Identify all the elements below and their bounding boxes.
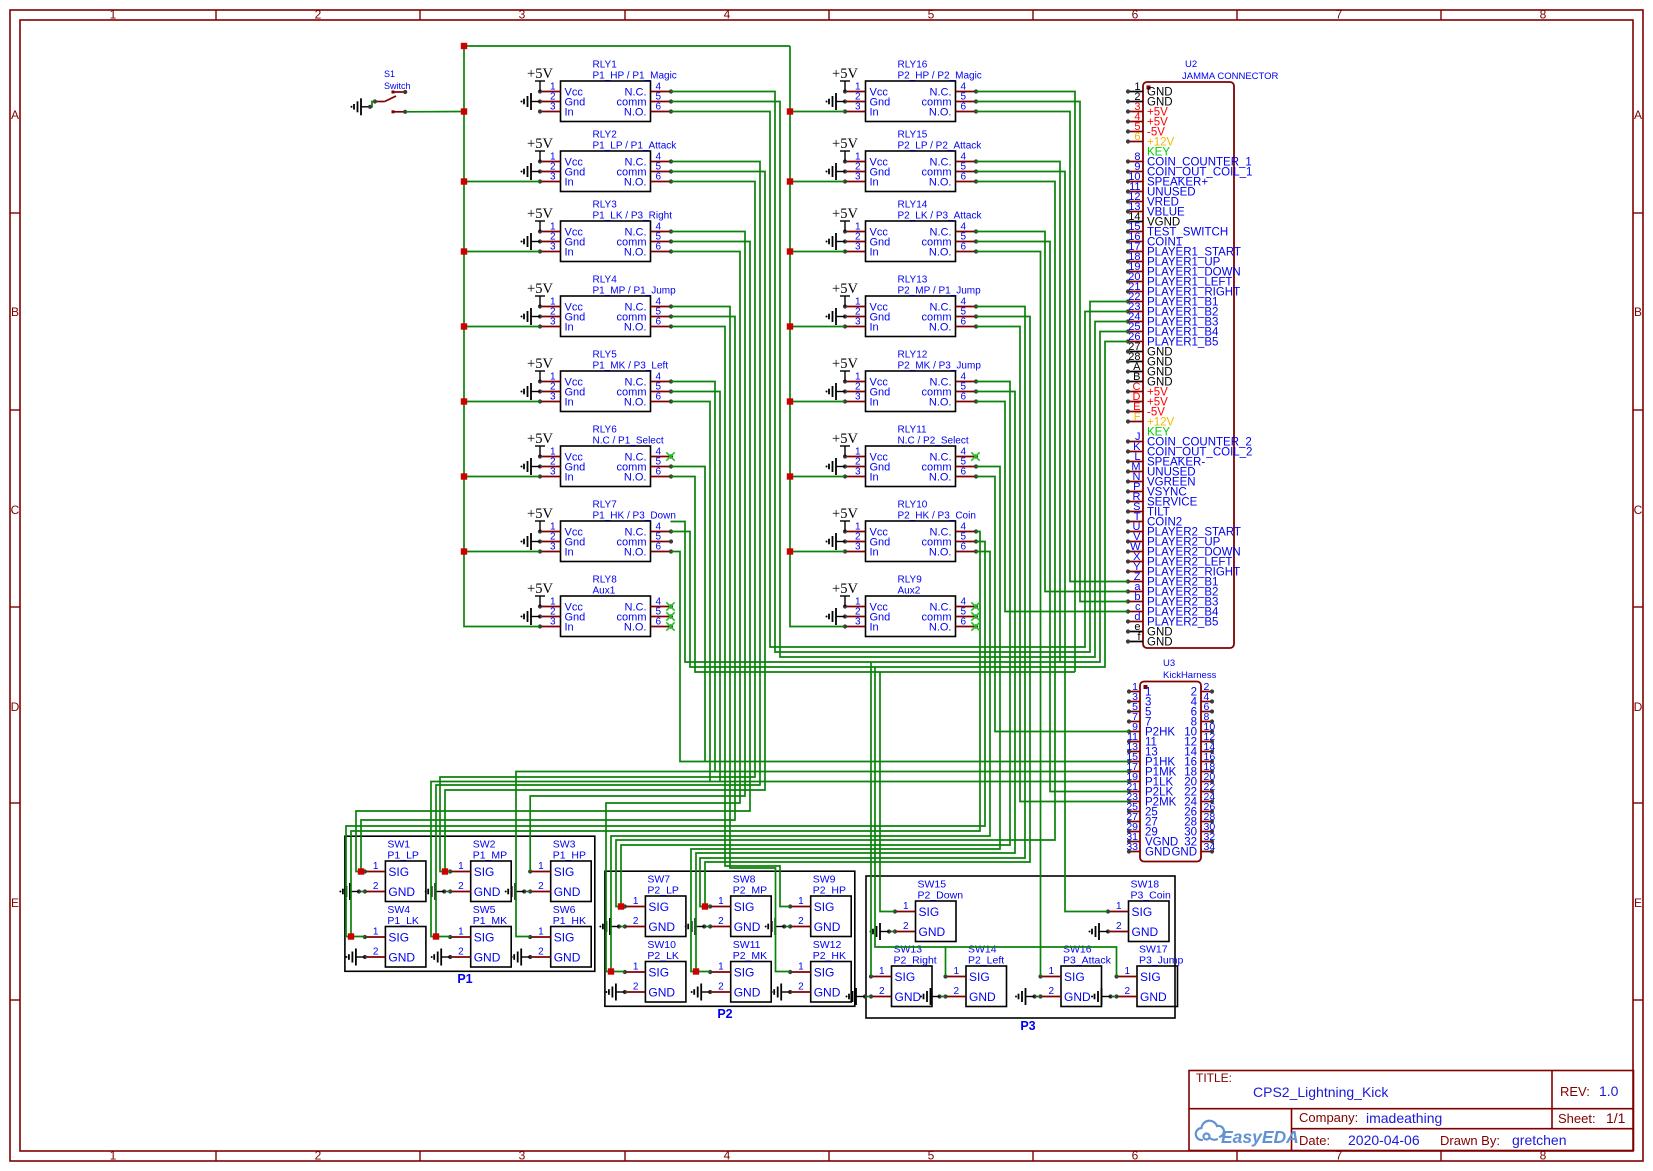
no-connect flag (666, 622, 674, 630)
svg-text:Switch: Switch (384, 81, 411, 91)
svg-text:P2_LP: P2_LP (647, 885, 679, 897)
switch SW6 P1_HK (528, 904, 591, 967)
svg-text:1: 1 (1048, 966, 1054, 977)
svg-text:In: In (565, 472, 574, 484)
junction (693, 968, 699, 974)
wire RLY15 NC drop (976, 162, 1061, 663)
svg-text:In: In (565, 547, 574, 559)
svg-text:1: 1 (879, 966, 885, 977)
svg-text:TITLE:: TITLE: (1196, 1071, 1232, 1085)
svg-text:1: 1 (718, 896, 724, 907)
group box P3 (866, 876, 1175, 1018)
ground at SW10 (605, 984, 625, 1001)
svg-text:P1_MK: P1_MK (473, 915, 507, 927)
wire right In rail (790, 46, 845, 627)
svg-text:6: 6 (656, 242, 662, 253)
svg-text:2020-04-06: 2020-04-06 (1348, 1132, 1420, 1148)
svg-text:6: 6 (656, 317, 662, 328)
svg-text:N.O.: N.O. (929, 247, 952, 259)
ground at RLY6 pin 2 (521, 458, 541, 475)
svg-text:+5V: +5V (527, 206, 553, 222)
svg-text:RLY16: RLY16 (898, 60, 928, 71)
svg-text:SIG: SIG (388, 865, 409, 879)
svg-text:N.O.: N.O. (929, 622, 952, 634)
switch SW4 P1_LK (363, 904, 426, 967)
svg-text:3: 3 (550, 317, 556, 328)
no-connect flag (971, 602, 979, 610)
svg-text:GND: GND (554, 885, 581, 899)
switch S1 (373, 69, 411, 114)
ground at SW7 (619, 926, 625, 928)
svg-text:+5V: +5V (527, 136, 553, 152)
wire RLY14 NO to SW16 (976, 252, 1041, 977)
svg-text:3: 3 (550, 242, 556, 253)
svg-text:SIG: SIG (919, 905, 940, 919)
wire KickHarness P1MK to SW6 (516, 772, 1129, 937)
svg-text:6: 6 (656, 392, 662, 403)
svg-text:P1_MK / P3_Left: P1_MK / P3_Left (593, 361, 669, 372)
svg-text:P1_HK / P3_Down: P1_HK / P3_Down (593, 511, 676, 522)
svg-text:JAMMA CONNECTOR: JAMMA CONNECTOR (1182, 71, 1279, 82)
svg-text:RLY1: RLY1 (593, 60, 618, 71)
wire RLY In stub left y401.5 (464, 401, 540, 403)
ground at SW15 (889, 931, 895, 933)
svg-text:P3_Attack: P3_Attack (1063, 955, 1112, 967)
junction (358, 868, 364, 874)
svg-text:2: 2 (538, 881, 544, 892)
wire RLY In stub left y551.5 (464, 551, 540, 553)
relay RLY15 P2_LP / P2_Attack (843, 130, 982, 192)
ground at SW13 (865, 996, 871, 998)
ground at SW8 (704, 926, 710, 928)
svg-text:In: In (565, 622, 574, 634)
svg-text:+5V: +5V (832, 206, 858, 222)
junction (787, 323, 793, 329)
svg-text:SIG: SIG (554, 865, 575, 879)
svg-text:GND: GND (648, 920, 675, 934)
ground at SW18 (1089, 923, 1109, 940)
svg-text:+5V: +5V (832, 431, 858, 447)
svg-text:3: 3 (855, 542, 861, 553)
relay RLY14 P2_LK / P3_Attack (843, 200, 983, 262)
svg-text:33: 33 (1126, 841, 1138, 853)
svg-text:RLY10: RLY10 (898, 500, 928, 511)
svg-text:GND: GND (648, 986, 675, 1000)
svg-text:SIG: SIG (474, 931, 495, 945)
svg-text:In: In (565, 177, 574, 189)
switch SW16 P3_Attack (1038, 944, 1111, 1007)
svg-text:34: 34 (1204, 841, 1216, 853)
junction (348, 933, 354, 939)
svg-text:SIG: SIG (1140, 970, 1161, 984)
svg-text:3: 3 (519, 1149, 526, 1163)
svg-text:3: 3 (550, 542, 556, 553)
svg-text:2: 2 (458, 947, 464, 958)
svg-text:3: 3 (550, 467, 556, 478)
junction (461, 398, 467, 404)
svg-text:N.O.: N.O. (624, 322, 647, 334)
wire RLY5 comm to P1LK net (671, 392, 721, 782)
svg-text:SIG: SIG (648, 900, 669, 914)
svg-text:SIG: SIG (895, 970, 916, 984)
svg-text:GND: GND (1171, 847, 1197, 859)
svg-text:B: B (11, 305, 19, 319)
svg-text:P2_Left: P2_Left (968, 955, 1004, 967)
svg-text:CPS2_Lightning_Kick: CPS2_Lightning_Kick (1253, 1084, 1389, 1100)
svg-text:3: 3 (855, 617, 861, 628)
svg-text:2: 2 (903, 921, 909, 932)
svg-text:6: 6 (656, 102, 662, 113)
wire RLY In stub right y326.5 (790, 326, 845, 328)
wire RLY3 NO to SW10 net (606, 252, 740, 972)
wire RLY7 NO to KickHarness P1HK (671, 552, 1130, 762)
wire S1 common to ground (370, 102, 375, 107)
ground at RLY2 pin 2 (521, 163, 541, 180)
ground at SW16 (1035, 996, 1041, 998)
svg-text:GND: GND (1064, 990, 1091, 1004)
relay RLY16 P2_HP / P2_Magic (843, 60, 982, 122)
wire RLY13 comm to SW8 (705, 317, 1030, 907)
junction (787, 178, 793, 184)
junction (442, 868, 448, 874)
svg-text:N.C / P2_Select: N.C / P2_Select (898, 436, 969, 447)
no-connect flag (971, 622, 979, 630)
svg-text:3: 3 (855, 172, 861, 183)
svg-text:1: 1 (633, 962, 639, 973)
svg-text:RLY13: RLY13 (898, 275, 928, 286)
relay RLY5 P1_MK / P3_Left (538, 350, 673, 412)
svg-text:N.O.: N.O. (929, 107, 952, 119)
svg-text:1: 1 (903, 901, 909, 912)
svg-text:3: 3 (519, 8, 526, 22)
svg-text:C: C (1634, 503, 1643, 517)
wire RLY5 NC to P1MK net (671, 382, 716, 772)
relay RLY3 P1_LK / P3_Right (538, 200, 673, 262)
wire RLY In stub right y476.5 (790, 476, 845, 478)
relay RLY1 P1_HP / P1_Magic (538, 60, 677, 122)
svg-text:3: 3 (855, 467, 861, 478)
svg-text:Aux1: Aux1 (593, 586, 616, 597)
wire RLY16 comm to JAMMA P2_B3 (976, 102, 1129, 602)
wire RLY14 comm to KickHarness P2LK (976, 242, 1130, 792)
svg-text:6: 6 (961, 392, 967, 403)
svg-text:+5V: +5V (527, 356, 553, 372)
svg-text:P1_LP: P1_LP (387, 850, 419, 862)
svg-text:N.O.: N.O. (624, 622, 647, 634)
relay RLY4 P1_MP / P1_Jump (538, 275, 676, 337)
svg-text:GND: GND (1132, 925, 1159, 939)
ground at SW6 (511, 949, 531, 966)
relay RLY8 Aux1 (538, 575, 673, 637)
svg-text:5: 5 (928, 1149, 935, 1163)
svg-text:2: 2 (315, 1149, 322, 1163)
ground at SW1 (359, 891, 365, 893)
svg-text:U3: U3 (1163, 658, 1175, 669)
svg-text:A: A (1634, 108, 1642, 122)
ground at RLY4 pin 2 (521, 308, 541, 325)
svg-text:P2_LP / P2_Attack: P2_LP / P2_Attack (898, 141, 983, 152)
wire RLY In stub left y251.5 (464, 251, 540, 253)
wire RLY7 NC to JAMMA P1_B4 row (671, 332, 1129, 663)
svg-text:In: In (870, 247, 879, 259)
svg-text:1: 1 (633, 896, 639, 907)
svg-text:3: 3 (855, 392, 861, 403)
relay RLY13 P2_MP / P1_Jump (843, 275, 981, 337)
switch SW5 P1_MK (448, 904, 511, 967)
svg-text:EasyEDA: EasyEDA (1221, 1127, 1299, 1147)
svg-text:2: 2 (798, 916, 804, 927)
svg-text:GND: GND (814, 986, 841, 1000)
switch SW10 P2_LK (623, 939, 686, 1002)
svg-text:Company:: Company: (1299, 1110, 1358, 1125)
svg-text:6: 6 (1132, 8, 1139, 22)
ground at RLY7 pin 2 (521, 533, 541, 550)
svg-text:KickHarness: KickHarness (1163, 670, 1217, 681)
junction (461, 108, 467, 114)
svg-text:F: F (1134, 411, 1141, 423)
svg-text:RLY11: RLY11 (898, 425, 928, 436)
svg-text:P2_HK / P3_Coin: P2_HK / P3_Coin (898, 511, 976, 522)
svg-text:SIG: SIG (388, 931, 409, 945)
relay RLY9 Aux2 (843, 575, 978, 637)
svg-text:SIG: SIG (1132, 905, 1153, 919)
svg-text:C: C (11, 503, 20, 517)
wire RLY3 NC to SW3 (530, 232, 745, 872)
group box P2 (605, 871, 855, 1006)
svg-text:6: 6 (961, 172, 967, 183)
no-connect flag (666, 602, 674, 610)
svg-text:7: 7 (1336, 8, 1343, 22)
svg-text:In: In (565, 322, 574, 334)
relay RLY12 P2_MK / P3_Jump (843, 350, 981, 412)
svg-text:1: 1 (538, 861, 544, 872)
relay RLY11 N.C / P2_Select (843, 425, 978, 487)
svg-text:GND: GND (814, 920, 841, 934)
svg-text:+5V: +5V (527, 581, 553, 597)
ground at SW5 (431, 949, 451, 966)
svg-text:imadeathing: imadeathing (1366, 1110, 1442, 1126)
svg-text:1: 1 (1124, 966, 1130, 977)
svg-text:In: In (870, 322, 879, 334)
svg-text:In: In (870, 397, 879, 409)
ground at SW17 (1111, 996, 1117, 998)
svg-text:SIG: SIG (734, 966, 755, 980)
svg-text:2: 2 (373, 947, 379, 958)
wire S1 to left In rail (405, 111, 464, 113)
svg-text:1: 1 (458, 861, 464, 872)
svg-text:SIG: SIG (648, 966, 669, 980)
no-connect flag (666, 452, 674, 460)
junction (461, 548, 467, 554)
junction (787, 398, 793, 404)
wire RLY15 NO to SW7 net (616, 182, 1055, 907)
ground at SW3 (524, 891, 530, 893)
svg-text:In: In (870, 547, 879, 559)
svg-text:In: In (870, 107, 879, 119)
svg-text:2: 2 (633, 982, 639, 993)
connector U2 JAMMA CONNECTOR (1126, 59, 1279, 649)
svg-text:4: 4 (724, 8, 731, 22)
ground at SW9 (784, 926, 790, 928)
svg-text:REV:: REV: (1560, 1084, 1590, 1099)
svg-text:RLY7: RLY7 (593, 500, 618, 511)
wire RLY12 comm to SW11 (696, 392, 1015, 972)
junction (461, 323, 467, 329)
svg-text:RLY5: RLY5 (593, 350, 618, 361)
svg-text:+5V: +5V (832, 356, 858, 372)
wire RLY16 NC drop (976, 92, 1076, 673)
wire RLY In stub right y251.5 (790, 251, 845, 253)
svg-text:2: 2 (373, 881, 379, 892)
svg-text:+5V: +5V (832, 506, 858, 522)
wire RLY1 comm to JAMMA P1_B3 (671, 102, 1129, 658)
wire RLY15 comm to SW18 (976, 172, 1109, 912)
svg-text:2: 2 (953, 986, 959, 997)
ground at SW2 (444, 891, 450, 893)
switch SW13 P2_Right (869, 944, 937, 1007)
svg-text:1: 1 (798, 896, 804, 907)
svg-text:2: 2 (1124, 986, 1130, 997)
wire RLY4 comm to SW1 (361, 317, 735, 872)
svg-text:6: 6 (961, 542, 967, 553)
wire RLY13 NO to KickHarness P2MK (976, 327, 1130, 802)
svg-text:1.0: 1.0 (1599, 1083, 1619, 1099)
svg-text:GND: GND (1145, 847, 1171, 859)
svg-text:6: 6 (961, 467, 967, 478)
wire RLY In stub left y326.5 (464, 326, 540, 328)
svg-text:D: D (11, 700, 20, 714)
svg-text:N.O.: N.O. (624, 177, 647, 189)
svg-text:SIG: SIG (1064, 970, 1085, 984)
wire RLY12 NO to JAMMA P2_B4 (976, 402, 1129, 612)
svg-text:P1: P1 (457, 972, 472, 986)
wire RLY In stub right y401.5 (790, 401, 845, 403)
wire RLY12 NC to SW7 (621, 382, 1010, 907)
svg-text:2: 2 (315, 8, 322, 22)
svg-text:N.O.: N.O. (929, 322, 952, 334)
wire RLY13 NC to SW8 net (700, 307, 1025, 907)
svg-text:RLY2: RLY2 (593, 130, 618, 141)
svg-text:+5V: +5V (832, 581, 858, 597)
svg-text:1: 1 (373, 861, 379, 872)
no-connect flag (666, 612, 674, 620)
svg-text:4: 4 (724, 1149, 731, 1163)
svg-text:N.O.: N.O. (624, 247, 647, 259)
junction (787, 108, 793, 114)
svg-text:P2_Down: P2_Down (918, 890, 964, 902)
wire RLY5 NO to P1LK net (671, 402, 711, 782)
svg-text:1: 1 (373, 927, 379, 938)
svg-text:2: 2 (538, 947, 544, 958)
junction (433, 933, 439, 939)
ground at SW11 (691, 984, 711, 1001)
svg-text:N.O.: N.O. (624, 472, 647, 484)
svg-text:3: 3 (855, 317, 861, 328)
svg-text:6: 6 (961, 102, 967, 113)
svg-text:6: 6 (656, 542, 662, 553)
svg-text:2: 2 (798, 982, 804, 993)
svg-text:RLY14: RLY14 (898, 200, 928, 211)
svg-text:2: 2 (1048, 986, 1054, 997)
svg-text:P1_MP: P1_MP (473, 850, 507, 862)
svg-text:A: A (11, 108, 19, 122)
wire RLY11 comm to SW11 net (691, 467, 1000, 972)
svg-text:+5V: +5V (527, 281, 553, 297)
title block (1189, 1071, 1634, 1151)
svg-text:P2: P2 (717, 1007, 732, 1021)
svg-text:P3_Coin: P3_Coin (1131, 890, 1171, 902)
svg-text:GND: GND (388, 951, 415, 965)
ground at RLY12 pin 2 (826, 383, 846, 400)
svg-text:P2_Right: P2_Right (894, 955, 937, 967)
junction (787, 248, 793, 254)
svg-text:P1_HP / P1_Magic: P1_HP / P1_Magic (593, 71, 677, 82)
junction (608, 968, 614, 974)
svg-text:3: 3 (550, 617, 556, 628)
svg-text:P1_LK / P3_Right: P1_LK / P3_Right (593, 211, 673, 222)
svg-text:GND: GND (474, 951, 501, 965)
svg-text:E: E (1634, 896, 1642, 910)
wire P3 SW13 feed (870, 662, 872, 977)
svg-text:P2_HK: P2_HK (813, 950, 846, 962)
svg-text:2: 2 (718, 916, 724, 927)
svg-text:N.O.: N.O. (624, 107, 647, 119)
svg-text:GND: GND (1140, 990, 1167, 1004)
svg-text:RLY4: RLY4 (593, 275, 618, 286)
svg-text:GND: GND (554, 951, 581, 965)
svg-text:5: 5 (928, 8, 935, 22)
svg-text:3: 3 (550, 172, 556, 183)
svg-text:6: 6 (961, 242, 967, 253)
svg-text:D: D (1634, 700, 1643, 714)
svg-text:GND: GND (895, 990, 922, 1004)
junction (702, 903, 708, 909)
svg-text:6: 6 (961, 617, 967, 628)
wire RLY In stub right y551.5 (790, 551, 845, 553)
wire RLY1 NC to JAMMA P1_B1 (671, 92, 1129, 653)
ground at RLY16 pin 2 (826, 93, 846, 110)
svg-text:RLY15: RLY15 (898, 130, 928, 141)
svg-text:N.O.: N.O. (929, 547, 952, 559)
group box P1 (345, 836, 595, 971)
switch SW1 P1_LP (363, 839, 426, 902)
switch SW12 P2_HK (788, 939, 851, 1002)
relay RLY10 P2_HK / P3_Coin (843, 500, 978, 562)
switch SW11 P2_MK (708, 939, 771, 1002)
svg-text:GND: GND (734, 920, 761, 934)
svg-text:GND: GND (474, 885, 501, 899)
wire RLY2 NC to SW5 (436, 162, 760, 937)
relay RLY6 N.C / P1_Select (538, 425, 673, 487)
wire RLY In stub right y181.5 (790, 181, 845, 183)
svg-text:Sheet:: Sheet: (1558, 1111, 1596, 1126)
svg-text:+5V: +5V (832, 136, 858, 152)
wire P3 SW14 drop (945, 947, 947, 977)
switch SW8 P2_MP (708, 874, 771, 937)
svg-text:S1: S1 (384, 69, 395, 79)
wire RLY10 NO to SW10 (611, 552, 990, 972)
svg-text:P3: P3 (1020, 1019, 1035, 1033)
wire RLY3 comm to SW1 net (356, 242, 750, 872)
wire RLY2 NO to SW2 net (440, 182, 755, 872)
switch SW14 P2_Left (943, 944, 1006, 1007)
svg-text:In: In (870, 622, 879, 634)
wire RLY7 comm to JAMMA P1_B5 row (671, 342, 1129, 668)
svg-text:+5V: +5V (832, 281, 858, 297)
ground at RLY3 pin 2 (521, 233, 541, 250)
svg-text:6: 6 (656, 172, 662, 183)
svg-text:P1_LK: P1_LK (387, 915, 419, 927)
